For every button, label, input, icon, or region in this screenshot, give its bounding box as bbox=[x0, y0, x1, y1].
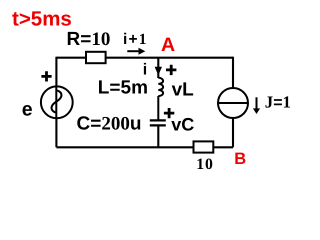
svg-text:t>5ms: t>5ms bbox=[12, 8, 72, 31]
svg-text:vL: vL bbox=[172, 79, 195, 100]
svg-text:C=200u: C=200u bbox=[77, 114, 142, 135]
wire middle branch lower bbox=[157, 126, 159, 147]
resistor 10 box bbox=[194, 141, 214, 152]
wire middle branch mid (coil to capacitor) bbox=[157, 96, 159, 120]
wire left branch bbox=[55, 57, 57, 148]
voltage source e circle bbox=[41, 86, 73, 118]
svg-text:B: B bbox=[234, 150, 246, 168]
arrow current i on middle branch bbox=[155, 67, 162, 75]
voltage source sine symbol bbox=[52, 90, 62, 112]
wire right branch bbox=[232, 57, 234, 148]
svg-text:R=10: R=10 bbox=[67, 29, 111, 50]
plus sign for vC bbox=[164, 108, 174, 118]
wire top (node A rail) bbox=[56, 57, 233, 59]
current source bar bbox=[218, 102, 248, 104]
wire middle branch upper bbox=[157, 58, 159, 78]
resistor R box bbox=[86, 52, 106, 63]
svg-text:10: 10 bbox=[196, 156, 213, 173]
arrow J direction bbox=[256, 97, 258, 109]
svg-text:L=5m: L=5m bbox=[98, 78, 148, 99]
arrow i+1 on top bbox=[127, 50, 139, 52]
inductor L coil bbox=[158, 78, 163, 96]
svg-text:vC: vC bbox=[171, 115, 194, 135]
capacitor C bottom plate bbox=[150, 124, 166, 126]
svg-text:A: A bbox=[161, 34, 175, 56]
svg-text:i: i bbox=[143, 62, 147, 79]
current source J circle bbox=[218, 88, 248, 118]
capacitor C top plate bbox=[150, 119, 166, 121]
wire bottom rail bbox=[56, 146, 233, 148]
plus sign for source e bbox=[41, 71, 51, 81]
svg-text:i+1: i+1 bbox=[123, 31, 148, 48]
svg-text:e: e bbox=[22, 99, 33, 121]
wire through voltage source bbox=[55, 87, 57, 118]
svg-text:J=1: J=1 bbox=[265, 93, 291, 112]
plus sign for vL bbox=[166, 65, 176, 75]
